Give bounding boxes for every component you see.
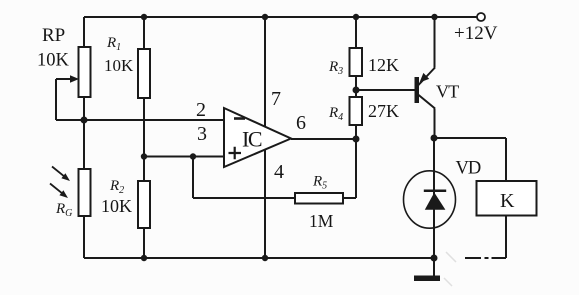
node R1 R2 pin3 — [141, 153, 147, 159]
wire R4 bottom lead — [355, 125, 357, 139]
svg-text:RG: RG — [55, 201, 72, 219]
svg-text:RP: RP — [42, 25, 65, 46]
node top pin7 — [262, 14, 268, 20]
resistor R4 — [350, 97, 363, 125]
node bottom R2 — [141, 255, 147, 261]
wire pin2 line — [56, 119, 224, 121]
node top R1 — [141, 14, 147, 20]
op-amp IC — [224, 108, 291, 167]
node bottom ground — [431, 255, 438, 262]
wire feedback drop — [192, 157, 194, 199]
wire bottom rail dashes — [465, 257, 506, 259]
photoresistor RG — [50, 167, 91, 217]
svg-text:3: 3 — [197, 123, 207, 145]
svg-text:R2: R2 — [109, 178, 124, 196]
node RP wiper — [81, 117, 88, 124]
wire wiper arm — [56, 79, 70, 120]
wire VD branch — [433, 138, 435, 258]
wire ground stub — [433, 258, 435, 276]
wire K bottom lead — [505, 216, 507, 259]
wire RG bottom lead — [83, 216, 85, 258]
svg-text:VD: VD — [456, 159, 481, 179]
potentiometer RP — [70, 47, 91, 97]
watermark — [444, 252, 456, 286]
node bottom pin4 — [262, 255, 268, 261]
node base divider — [353, 87, 360, 94]
svg-text:R5: R5 — [312, 174, 327, 192]
svg-text:7: 7 — [271, 88, 281, 110]
node output — [353, 136, 360, 143]
wire base wire — [356, 89, 415, 91]
svg-text:10K: 10K — [104, 56, 134, 75]
svg-text:IC: IC — [242, 127, 262, 152]
wire feedback left — [193, 197, 295, 199]
relay K — [477, 181, 537, 216]
diode VD — [404, 171, 456, 228]
svg-text:R3: R3 — [328, 59, 343, 77]
svg-text:R4: R4 — [328, 105, 343, 123]
svg-text:K: K — [500, 190, 515, 212]
wire R2 bottom lead — [143, 228, 145, 258]
wire top rail — [84, 16, 477, 18]
node feedback tap — [190, 153, 196, 159]
svg-text:1M: 1M — [309, 211, 334, 231]
wire pin4 line — [264, 150, 266, 258]
wire pin3 line — [144, 156, 224, 158]
wire collector vertical — [434, 109, 436, 139]
node top R3 — [353, 14, 359, 20]
wire output line — [291, 138, 356, 140]
resistor R2 — [138, 181, 150, 228]
node collector — [431, 135, 438, 142]
svg-text:+12V: +12V — [454, 23, 498, 44]
svg-text:6: 6 — [296, 112, 306, 134]
wire R3 to R4 — [355, 76, 357, 97]
wire pin7 line — [264, 17, 266, 126]
ground — [414, 276, 440, 282]
svg-text:R1: R1 — [106, 35, 121, 53]
wire RP to RG — [83, 120, 85, 169]
resistor R3 — [350, 48, 363, 76]
svg-text:VT: VT — [436, 82, 459, 102]
svg-text:4: 4 — [274, 161, 284, 183]
wire RP top lead — [83, 17, 85, 47]
svg-text:12K: 12K — [368, 55, 399, 75]
wire K branch — [434, 138, 506, 181]
terminal +12V — [477, 13, 485, 21]
wire R3 top lead — [355, 17, 357, 48]
resistor R1 — [138, 49, 150, 98]
wire RP bottom lead — [83, 97, 85, 120]
wire R5 right lead — [343, 139, 356, 198]
node top VT — [431, 14, 437, 20]
svg-text:2: 2 — [196, 99, 206, 121]
svg-text:10K: 10K — [101, 196, 132, 216]
wire R1 top lead — [143, 17, 145, 49]
svg-text:27K: 27K — [368, 101, 399, 121]
resistor R5 — [295, 193, 343, 204]
wire bottom rail — [84, 257, 433, 259]
wire R1 to R2 — [143, 98, 145, 181]
svg-text:10K: 10K — [37, 51, 70, 71]
transistor Q1 VT — [415, 68, 436, 109]
wire emitter vertical — [434, 17, 436, 68]
